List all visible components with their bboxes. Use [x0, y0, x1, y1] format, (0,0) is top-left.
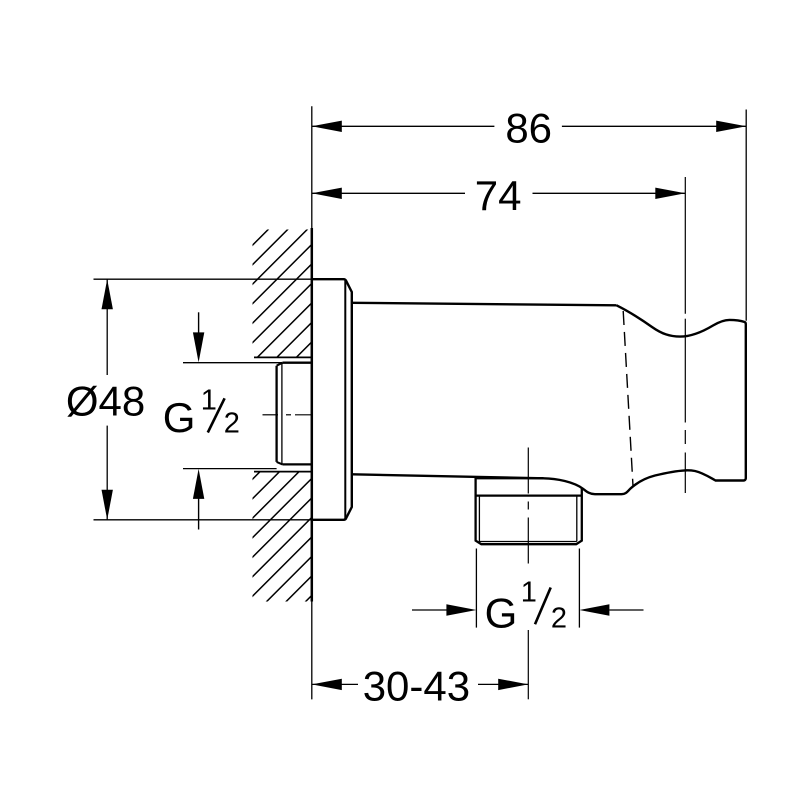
dimension 74 extension/centerline — [684, 177, 686, 493]
shower holder outline — [544, 305, 746, 494]
outlet dimension extension lines — [475, 549, 477, 628]
svg-text:74: 74 — [475, 172, 522, 219]
dimension Ø48 arrowheads — [102, 279, 113, 309]
inlet centerline — [263, 414, 312, 416]
dimension 86 arrowheads — [312, 121, 342, 132]
dimension 30-43 arrowheads — [312, 679, 342, 690]
svg-text:G: G — [485, 590, 518, 637]
svg-text:2: 2 — [551, 603, 567, 635]
escutcheon flange — [312, 279, 352, 520]
svg-text:Ø48: Ø48 — [66, 378, 145, 425]
wall hole bottom edge — [254, 471, 312, 473]
svg-text:1: 1 — [521, 576, 537, 608]
inlet thread dimension lines — [183, 362, 282, 364]
outlet centerline — [527, 448, 529, 567]
wall hole top edge — [254, 356, 312, 358]
body cylinder bottom edge — [353, 474, 544, 478]
outlet port G1/2 — [476, 477, 582, 544]
outlet dimension right arrow — [609, 609, 643, 611]
dimension 86 right extension line — [745, 110, 747, 321]
inlet thread G1/2 behind wall — [277, 363, 312, 465]
svg-text:30-43: 30-43 — [363, 662, 470, 709]
body cylinder top edge — [353, 303, 617, 306]
wall hatching — [0, 0, 800, 613]
dimension Ø48 extension lines — [94, 278, 312, 280]
wall line — [311, 106, 313, 699]
svg-text:86: 86 — [505, 105, 552, 152]
dimension 74 arrowheads — [312, 188, 342, 199]
inlet thread dimension up arrow — [198, 497, 200, 530]
svg-text:2: 2 — [224, 408, 240, 440]
dimension 86 line — [312, 125, 746, 127]
dimension Ø48 line — [106, 279, 108, 520]
dimension 30-43 line — [312, 683, 528, 685]
svg-text:1: 1 — [201, 384, 217, 416]
holder hidden edge (dashed) — [623, 311, 633, 486]
inlet thread dimension down arrow — [198, 312, 200, 334]
dimension 74 line — [312, 192, 686, 194]
outlet dimension left arrow — [412, 609, 448, 611]
svg-text:G: G — [163, 394, 196, 441]
